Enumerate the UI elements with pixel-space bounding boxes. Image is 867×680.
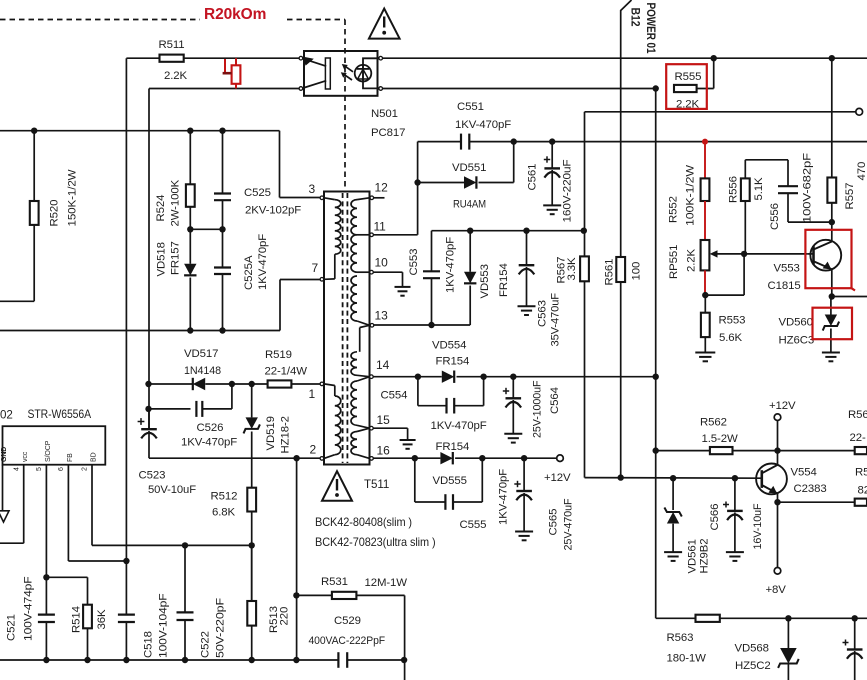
- svg-text:BCK42-70823(ultra slim ): BCK42-70823(ultra slim ): [315, 536, 436, 549]
- capacitor C567: [854, 618, 856, 649]
- capacitor C555 snubber: [414, 458, 416, 502]
- svg-text:25V-470uF: 25V-470uF: [563, 498, 575, 550]
- capacitor C551: [460, 134, 462, 150]
- junction C518 node: [123, 558, 129, 564]
- svg-text:14: 14: [376, 358, 390, 372]
- net R-adjust dashed annotation line right: [287, 19, 345, 21]
- svg-text:2W-100K: 2W-100K: [170, 179, 182, 226]
- zener diode VD519: [251, 384, 253, 417]
- svg-text:50V-10uF: 50V-10uF: [148, 484, 196, 496]
- resistor R553: [704, 295, 706, 313]
- wire R563 feed: [656, 617, 696, 619]
- svg-text:FR157: FR157: [170, 241, 182, 275]
- ground C563: [518, 305, 536, 307]
- wire R552 red trace top: [704, 142, 706, 179]
- wire second V2: [148, 89, 150, 430]
- transistor V554: [756, 464, 787, 495]
- resistor R514: [87, 577, 89, 604]
- svg-text:R555: R555: [675, 71, 702, 83]
- annotation resistor R20kOm symbol (red): [232, 65, 241, 84]
- wire base rail link: [584, 477, 586, 479]
- svg-text:+12V: +12V: [544, 472, 571, 484]
- resistor R511: [160, 55, 184, 62]
- junction opto rail R555: [653, 85, 659, 91]
- svg-text:R561: R561: [604, 259, 616, 286]
- ground VD561: [664, 551, 682, 553]
- transformer secondary winding 12-11: [357, 198, 370, 200]
- wire top rail to optocoupler: [126, 57, 299, 59]
- svg-text:C2383: C2383: [794, 483, 827, 495]
- wire pin7 return: [279, 280, 281, 331]
- highlight box R555 (red): [666, 64, 707, 109]
- resistor R555: [674, 85, 697, 92]
- ground C564: [504, 433, 522, 435]
- svg-text:16: 16: [377, 444, 391, 458]
- svg-text:100: 100: [631, 262, 643, 281]
- svg-text:50V-220pF: 50V-220pF: [215, 598, 227, 658]
- transistor V553: [810, 240, 841, 271]
- svg-text:1KV-470pF: 1KV-470pF: [431, 420, 487, 432]
- svg-text:1KV-470pF: 1KV-470pF: [445, 237, 457, 293]
- capacitor C561: [551, 142, 553, 168]
- IC pin GND: [2, 465, 4, 511]
- svg-text:VD560: VD560: [779, 317, 813, 329]
- svg-text:C1815: C1815: [768, 280, 801, 292]
- svg-text:C554: C554: [381, 390, 408, 402]
- diode VD555: [440, 452, 452, 464]
- svg-text:R524: R524: [155, 195, 167, 222]
- svg-text:HZ6C3: HZ6C3: [779, 335, 815, 347]
- capacitor C563: [526, 231, 528, 265]
- svg-text:R556: R556: [728, 176, 740, 203]
- capacitor C525A: [222, 229, 224, 267]
- svg-text:1KV-470pF: 1KV-470pF: [498, 469, 510, 525]
- svg-text:C553: C553: [408, 249, 420, 276]
- transformer pin 16: [370, 457, 374, 461]
- svg-text:C564: C564: [549, 387, 561, 414]
- terminal +12V secondary: [557, 455, 564, 462]
- svg-text:FB: FB: [67, 453, 74, 462]
- svg-text:STR-W6556A: STR-W6556A: [28, 408, 92, 421]
- diode VD517: [149, 383, 193, 385]
- capacitor C522: [184, 545, 186, 612]
- IC drain arrow: [0, 511, 9, 522]
- net R-adjust dashed annotation line left: [0, 19, 200, 21]
- capacitor C518: [125, 561, 127, 614]
- svg-text:C561: C561: [527, 164, 539, 191]
- diode VD518: [184, 264, 196, 276]
- diode VD551: [418, 182, 464, 184]
- wire wiper feedback: [741, 251, 747, 257]
- resistor R556: [741, 178, 750, 201]
- svg-text:FR154: FR154: [436, 356, 470, 368]
- svg-text:V554: V554: [791, 467, 817, 479]
- svg-text:7: 7: [312, 261, 319, 275]
- wire pin2 drop to ground rail: [296, 458, 298, 660]
- svg-text:25V-1000uF: 25V-1000uF: [532, 380, 544, 438]
- svg-text:C551: C551: [457, 101, 484, 113]
- svg-text:VD517: VD517: [184, 348, 218, 360]
- svg-text:2: 2: [82, 467, 89, 471]
- ground R553: [695, 352, 715, 354]
- resistor R565 partial: [855, 499, 867, 506]
- svg-text:+12V: +12V: [769, 400, 796, 412]
- svg-text:HZ9B2: HZ9B2: [699, 539, 711, 574]
- svg-text:+8V: +8V: [766, 584, 787, 596]
- svg-text:GND: GND: [1, 447, 8, 462]
- capacitor C554 snubber: [417, 377, 419, 406]
- wire pin 15 ground: [373, 427, 408, 429]
- IC pin FB: [67, 465, 69, 561]
- IC pin BD: [91, 465, 93, 546]
- svg-text:C523: C523: [139, 470, 166, 482]
- transformer secondary winding 11-10: [351, 235, 357, 272]
- svg-text:C563: C563: [537, 300, 549, 327]
- svg-text:5: 5: [36, 467, 43, 471]
- transformer pin 12: [370, 196, 374, 200]
- diode VD553: [469, 231, 471, 272]
- svg-text:R531: R531: [321, 576, 348, 588]
- svg-text:1N4148: 1N4148: [184, 365, 221, 377]
- svg-text:22-1/4W: 22-1/4W: [265, 366, 308, 378]
- diode VD554: [442, 371, 454, 383]
- wire output terminal net: [585, 111, 856, 113]
- wire pin 13: [374, 324, 471, 326]
- transformer secondary winding 13-14: [359, 328, 361, 352]
- transformer T511 core laminations (dashed): [342, 193, 344, 463]
- wire R557 drop: [831, 58, 833, 177]
- svg-text:1: 1: [309, 387, 316, 401]
- svg-text:R56: R56: [848, 409, 867, 421]
- transformer pin 13: [370, 324, 374, 328]
- svg-text:C518: C518: [143, 631, 155, 658]
- transformer pin 3: [320, 196, 324, 200]
- svg-text:R511: R511: [159, 39, 185, 51]
- wire V553 emitter out: [829, 293, 835, 299]
- highlight box VD560 (red): [813, 308, 853, 340]
- wire pin 14 rail: [373, 376, 442, 378]
- svg-text:C525: C525: [244, 187, 271, 199]
- svg-text:VD568: VD568: [735, 643, 769, 655]
- junction top rail: [711, 55, 717, 61]
- svg-text:22-: 22-: [850, 432, 866, 444]
- ground pin15: [400, 439, 416, 441]
- potentiometer RP551: [701, 240, 710, 270]
- wire secondary feedback rail: [432, 230, 584, 232]
- svg-text:R563: R563: [667, 632, 694, 644]
- svg-text:HZ18-2: HZ18-2: [280, 416, 292, 453]
- svg-text:5.6K: 5.6K: [719, 332, 743, 344]
- svg-text:12M-1W: 12M-1W: [365, 577, 408, 589]
- net dashed vertical to transformer: [344, 20, 346, 192]
- IC pin VCC: [23, 465, 25, 544]
- svg-text:R514: R514: [71, 606, 83, 633]
- capacitor C521: [45, 577, 47, 614]
- capacitor C523: [148, 409, 150, 429]
- ground C566: [726, 551, 744, 553]
- svg-text:VD518: VD518: [156, 242, 168, 276]
- svg-text:C526: C526: [197, 422, 224, 434]
- svg-text:VD551: VD551: [452, 162, 486, 174]
- transformer pin 14: [370, 375, 374, 379]
- svg-text:VD561: VD561: [687, 539, 699, 573]
- svg-text:36K: 36K: [96, 609, 108, 629]
- capacitor C564: [512, 377, 514, 398]
- transformer secondary winding 14-15: [357, 377, 370, 381]
- wire rectified rail y141: [418, 141, 461, 143]
- svg-text:C522: C522: [200, 631, 212, 658]
- svg-text:12: 12: [375, 181, 389, 195]
- wire pin11 riser: [417, 142, 419, 235]
- junction C551 node: [511, 138, 517, 144]
- optocoupler N501 phototransistor side: [325, 58, 330, 89]
- svg-text:C565: C565: [548, 509, 560, 536]
- transformer secondary winding 15-16: [357, 428, 370, 431]
- capacitor C556: [745, 159, 788, 161]
- capacitor C529: [337, 652, 339, 668]
- svg-text:VD553: VD553: [479, 264, 491, 298]
- svg-text:100V-474pF: 100V-474pF: [23, 576, 35, 641]
- svg-text:35V-470uF: 35V-470uF: [550, 293, 562, 347]
- resistor R531: [296, 594, 332, 596]
- svg-text:C556: C556: [769, 203, 781, 230]
- resistor R513: [251, 545, 253, 601]
- svg-text:5.1K: 5.1K: [753, 177, 765, 201]
- svg-text:220: 220: [279, 607, 291, 626]
- svg-text:100V-682pF: 100V-682pF: [802, 153, 814, 223]
- svg-text:vcc: vcc: [22, 451, 29, 462]
- junction base rail: [670, 475, 676, 481]
- zener diode VD560: [830, 297, 832, 315]
- transformer secondary winding 10-13: [351, 276, 357, 321]
- ground C561: [543, 204, 561, 206]
- warning symbol W1: [369, 9, 400, 39]
- optocoupler U-N501 box: [304, 51, 378, 96]
- wire opto bottom rail right: [382, 88, 655, 90]
- transformer pin 15: [370, 426, 374, 430]
- transformer pin 11: [370, 233, 374, 237]
- transformer pin 1: [320, 382, 324, 386]
- svg-text:FR154: FR154: [436, 441, 470, 453]
- wire pin 11 to riser: [373, 234, 417, 236]
- svg-text:T511: T511: [364, 478, 389, 491]
- svg-text:15: 15: [377, 413, 391, 427]
- junction snubber link: [187, 226, 193, 232]
- svg-text:100V-104pF: 100V-104pF: [158, 593, 170, 658]
- resistor R563: [696, 615, 720, 622]
- resistor R524: [189, 131, 191, 185]
- svg-text:3: 3: [309, 182, 316, 196]
- svg-text:1.5-2W: 1.5-2W: [702, 433, 738, 445]
- svg-text:2.2K: 2.2K: [164, 70, 188, 82]
- resistor R564 partial: [855, 447, 867, 454]
- svg-text:100K-1/2W: 100K-1/2W: [685, 165, 697, 226]
- svg-text:B12: B12: [629, 8, 643, 27]
- wire bottom ground rail: [0, 659, 338, 661]
- transformer primary winding 1-2: [324, 384, 335, 386]
- svg-text:180-1W: 180-1W: [667, 653, 707, 665]
- wire second rail to optocoupler: [149, 88, 299, 90]
- wire B+ rail: [0, 130, 280, 132]
- wire V554 emitter: [774, 499, 780, 505]
- optocoupler N501 LED side: [363, 58, 381, 88]
- ground C565: [515, 531, 533, 533]
- svg-text:2.2K: 2.2K: [686, 248, 698, 272]
- svg-text:R553: R553: [719, 315, 746, 327]
- svg-text:C521: C521: [6, 614, 18, 641]
- capacitor C566: [734, 478, 736, 511]
- transformer pin 10: [370, 270, 374, 274]
- svg-text:RP551: RP551: [668, 245, 680, 279]
- ground pin10: [395, 286, 411, 288]
- svg-text:1KV-470pF: 1KV-470pF: [181, 437, 237, 449]
- wire pin 10 ground: [373, 271, 402, 273]
- wire pin 16 rail: [373, 457, 440, 459]
- wire R552-RP551 red: [704, 201, 706, 240]
- capacitor C553: [431, 231, 433, 272]
- resistor R557: [827, 178, 836, 203]
- svg-text:BD: BD: [91, 452, 98, 462]
- svg-text:C529: C529: [334, 615, 361, 627]
- optocoupler pins: [299, 56, 303, 60]
- warning symbol W2: [322, 471, 352, 501]
- transformer pin 2: [320, 457, 324, 461]
- resistor R519: [232, 383, 268, 385]
- IC pin S/OCP: [45, 465, 47, 578]
- svg-text:HZ5C2: HZ5C2: [735, 660, 771, 672]
- svg-text:82: 82: [858, 485, 867, 497]
- optocoupler N501 light arrows: [345, 66, 353, 72]
- svg-text:02: 02: [0, 409, 13, 422]
- svg-text:R519: R519: [265, 349, 292, 361]
- svg-text:1KV-470pF: 1KV-470pF: [455, 119, 511, 131]
- svg-text:R5: R5: [855, 467, 867, 479]
- highlight box V553 (red): [805, 230, 851, 288]
- svg-text:10: 10: [375, 256, 389, 270]
- svg-text:470: 470: [856, 162, 867, 181]
- svg-text:FR154: FR154: [498, 263, 510, 297]
- svg-text:BCK42-80408(slim ): BCK42-80408(slim ): [315, 516, 412, 529]
- wire pin 2 net: [149, 457, 320, 459]
- svg-text:S/OCP: S/OCP: [45, 440, 52, 462]
- zener diode VD561: [672, 478, 674, 510]
- svg-text:6: 6: [58, 467, 65, 471]
- junction R512 bottom: [249, 542, 255, 548]
- svg-text:13: 13: [375, 309, 389, 323]
- terminal +12V top: [774, 414, 781, 421]
- resistor R561: [616, 257, 625, 282]
- svg-text:R520: R520: [49, 200, 61, 227]
- svg-text:4: 4: [14, 467, 21, 471]
- connector B12 POWER 01 boundary: [621, 0, 632, 478]
- svg-text:VD519: VD519: [265, 416, 277, 450]
- svg-text:R512: R512: [211, 491, 238, 503]
- resistor R562: [656, 450, 710, 452]
- svg-text:R552: R552: [668, 196, 680, 223]
- ground VD560: [822, 352, 840, 354]
- resistor R552: [701, 178, 710, 201]
- svg-text:160V-220uF: 160V-220uF: [562, 159, 574, 222]
- svg-text:R20kOm: R20kOm: [204, 6, 266, 23]
- svg-text:POWER 01: POWER 01: [644, 3, 656, 55]
- svg-text:VD554: VD554: [432, 340, 466, 352]
- svg-text:N501: N501: [371, 108, 398, 120]
- resistor R512: [247, 488, 256, 512]
- wire top-left V1: [125, 58, 127, 561]
- svg-text:150K-1/2W: 150K-1/2W: [67, 169, 79, 226]
- IC N502 STR-W6556A: [3, 426, 106, 465]
- svg-text:2: 2: [310, 443, 317, 457]
- transformer pin 7: [320, 278, 324, 282]
- capacitor C526: [149, 408, 191, 410]
- wire lower rail: [0, 330, 280, 332]
- svg-text:R562: R562: [700, 417, 727, 429]
- svg-text:1KV-470pF: 1KV-470pF: [257, 234, 269, 290]
- wire pin3 feed: [279, 131, 281, 198]
- svg-text:2KV-102pF: 2KV-102pF: [245, 205, 301, 217]
- svg-text:VD555: VD555: [433, 475, 467, 487]
- wire top rail right: [382, 57, 867, 59]
- resistor R567: [584, 231, 586, 257]
- svg-text:RU4AM: RU4AM: [453, 199, 486, 211]
- transformer T511 core box: [324, 192, 370, 465]
- wire RP551 red bottom: [704, 270, 706, 295]
- wire R555 drop line: [655, 89, 657, 619]
- svg-text:C566: C566: [709, 504, 721, 531]
- svg-text:V553: V553: [774, 263, 800, 275]
- transformer primary winding 3-7: [324, 198, 335, 200]
- zener diode VD568: [787, 618, 789, 648]
- svg-text:16V-10uF: 16V-10uF: [752, 503, 764, 549]
- svg-text:400VAC-222PpF: 400VAC-222PpF: [309, 635, 386, 647]
- capacitor C525: [222, 131, 224, 194]
- svg-text:3.3K: 3.3K: [566, 257, 578, 281]
- svg-text:C525A: C525A: [243, 255, 255, 290]
- svg-text:C555: C555: [460, 519, 487, 531]
- svg-text:6.8K: 6.8K: [212, 507, 236, 519]
- capacitor C565: [523, 458, 525, 491]
- terminal +8V: [777, 502, 779, 567]
- terminal open pin: [856, 108, 863, 115]
- svg-text:11: 11: [374, 220, 387, 234]
- resistor R520: [33, 131, 35, 201]
- wire S-OCP node: [43, 574, 49, 580]
- svg-text:R557: R557: [844, 183, 856, 210]
- svg-text:PC817: PC817: [371, 127, 405, 139]
